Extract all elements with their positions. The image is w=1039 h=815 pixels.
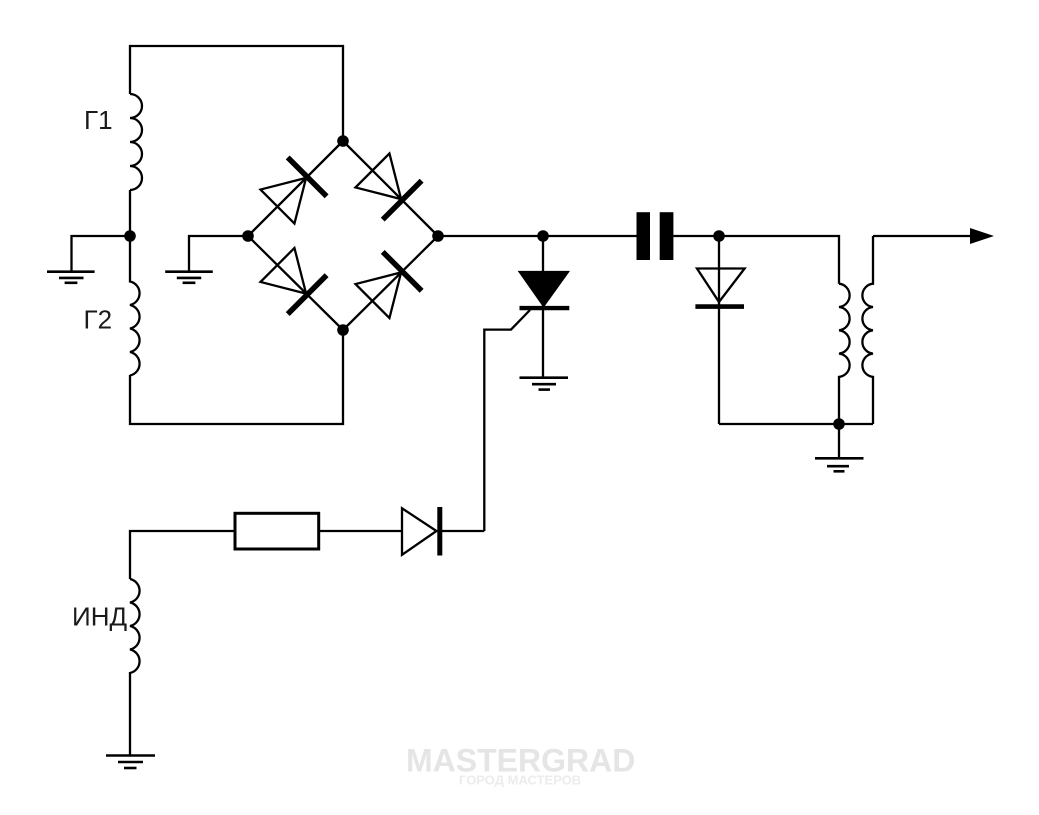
wire output from secondary top	[873, 235, 971, 237]
node diode VD5 junction	[713, 230, 725, 242]
output arrow head	[970, 228, 994, 244]
svg-text:Г2: Г2	[84, 305, 113, 335]
wire diode VD6 to gate wire	[440, 530, 485, 532]
diode VD1 (left node to top node)	[258, 157, 327, 226]
node A center-tap junction	[124, 230, 136, 242]
capacitor C1 plates	[637, 212, 651, 260]
node bridge left	[242, 230, 254, 242]
wire resistor to diode VD6	[319, 530, 402, 532]
wire G1 bottom to center-tap node	[129, 190, 131, 237]
transformer T1 secondary winding	[862, 236, 873, 424]
diode VD5 body	[697, 269, 745, 303]
node bridge top	[337, 135, 349, 147]
svg-text:ИНД: ИНД	[72, 602, 127, 632]
svg-text:Г1: Г1	[84, 105, 113, 135]
diode VD2 (top node to right node)	[353, 151, 422, 220]
diode VD5 vertical wire	[718, 236, 720, 424]
node thyristor anode junction	[537, 230, 549, 242]
svg-text:ГОРОД МАСТЕРОВ: ГОРОД МАСТЕРОВ	[459, 773, 581, 788]
wire node to ground 4	[838, 424, 840, 458]
wire bridge left node to ground 2	[189, 236, 248, 272]
ground GND1	[47, 272, 95, 283]
thyristor VS1 body	[520, 272, 568, 306]
ground GND4 under transformer	[815, 458, 864, 471]
wire IND top to resistor	[130, 531, 235, 579]
wire bridge right to capacitor	[438, 235, 637, 237]
diode VD3 (left node to bottom node)	[258, 246, 327, 315]
wire bottom return diode to transformer	[719, 423, 873, 425]
inductor G1 winding	[130, 94, 142, 190]
node bridge bottom	[337, 324, 349, 336]
inductor IND winding	[130, 579, 140, 756]
wire top loop from G1 top to bridge top	[130, 46, 343, 141]
node transformer ground junction	[833, 418, 845, 430]
diode VD4 (bottom node to right node)	[353, 252, 422, 321]
inductor G2 winding	[130, 235, 140, 376]
thyristor VS1 anode wire and cathode wire	[542, 236, 544, 378]
node bridge right	[432, 230, 444, 242]
wire G2 bottom loop to bridge bottom	[130, 330, 343, 424]
diode VD6 body	[402, 508, 437, 555]
wire center-tap to left ground	[72, 236, 131, 272]
transformer T1 primary winding	[839, 284, 850, 424]
wire capacitor to transformer primary	[673, 236, 839, 284]
ground GND3 under thyristor	[520, 378, 569, 390]
resistor R1	[235, 513, 319, 549]
thyristor gate wire	[484, 310, 530, 531]
diode bridge arms	[248, 141, 438, 330]
ground GND2	[165, 272, 213, 283]
ground GND5 under IND	[106, 756, 155, 769]
